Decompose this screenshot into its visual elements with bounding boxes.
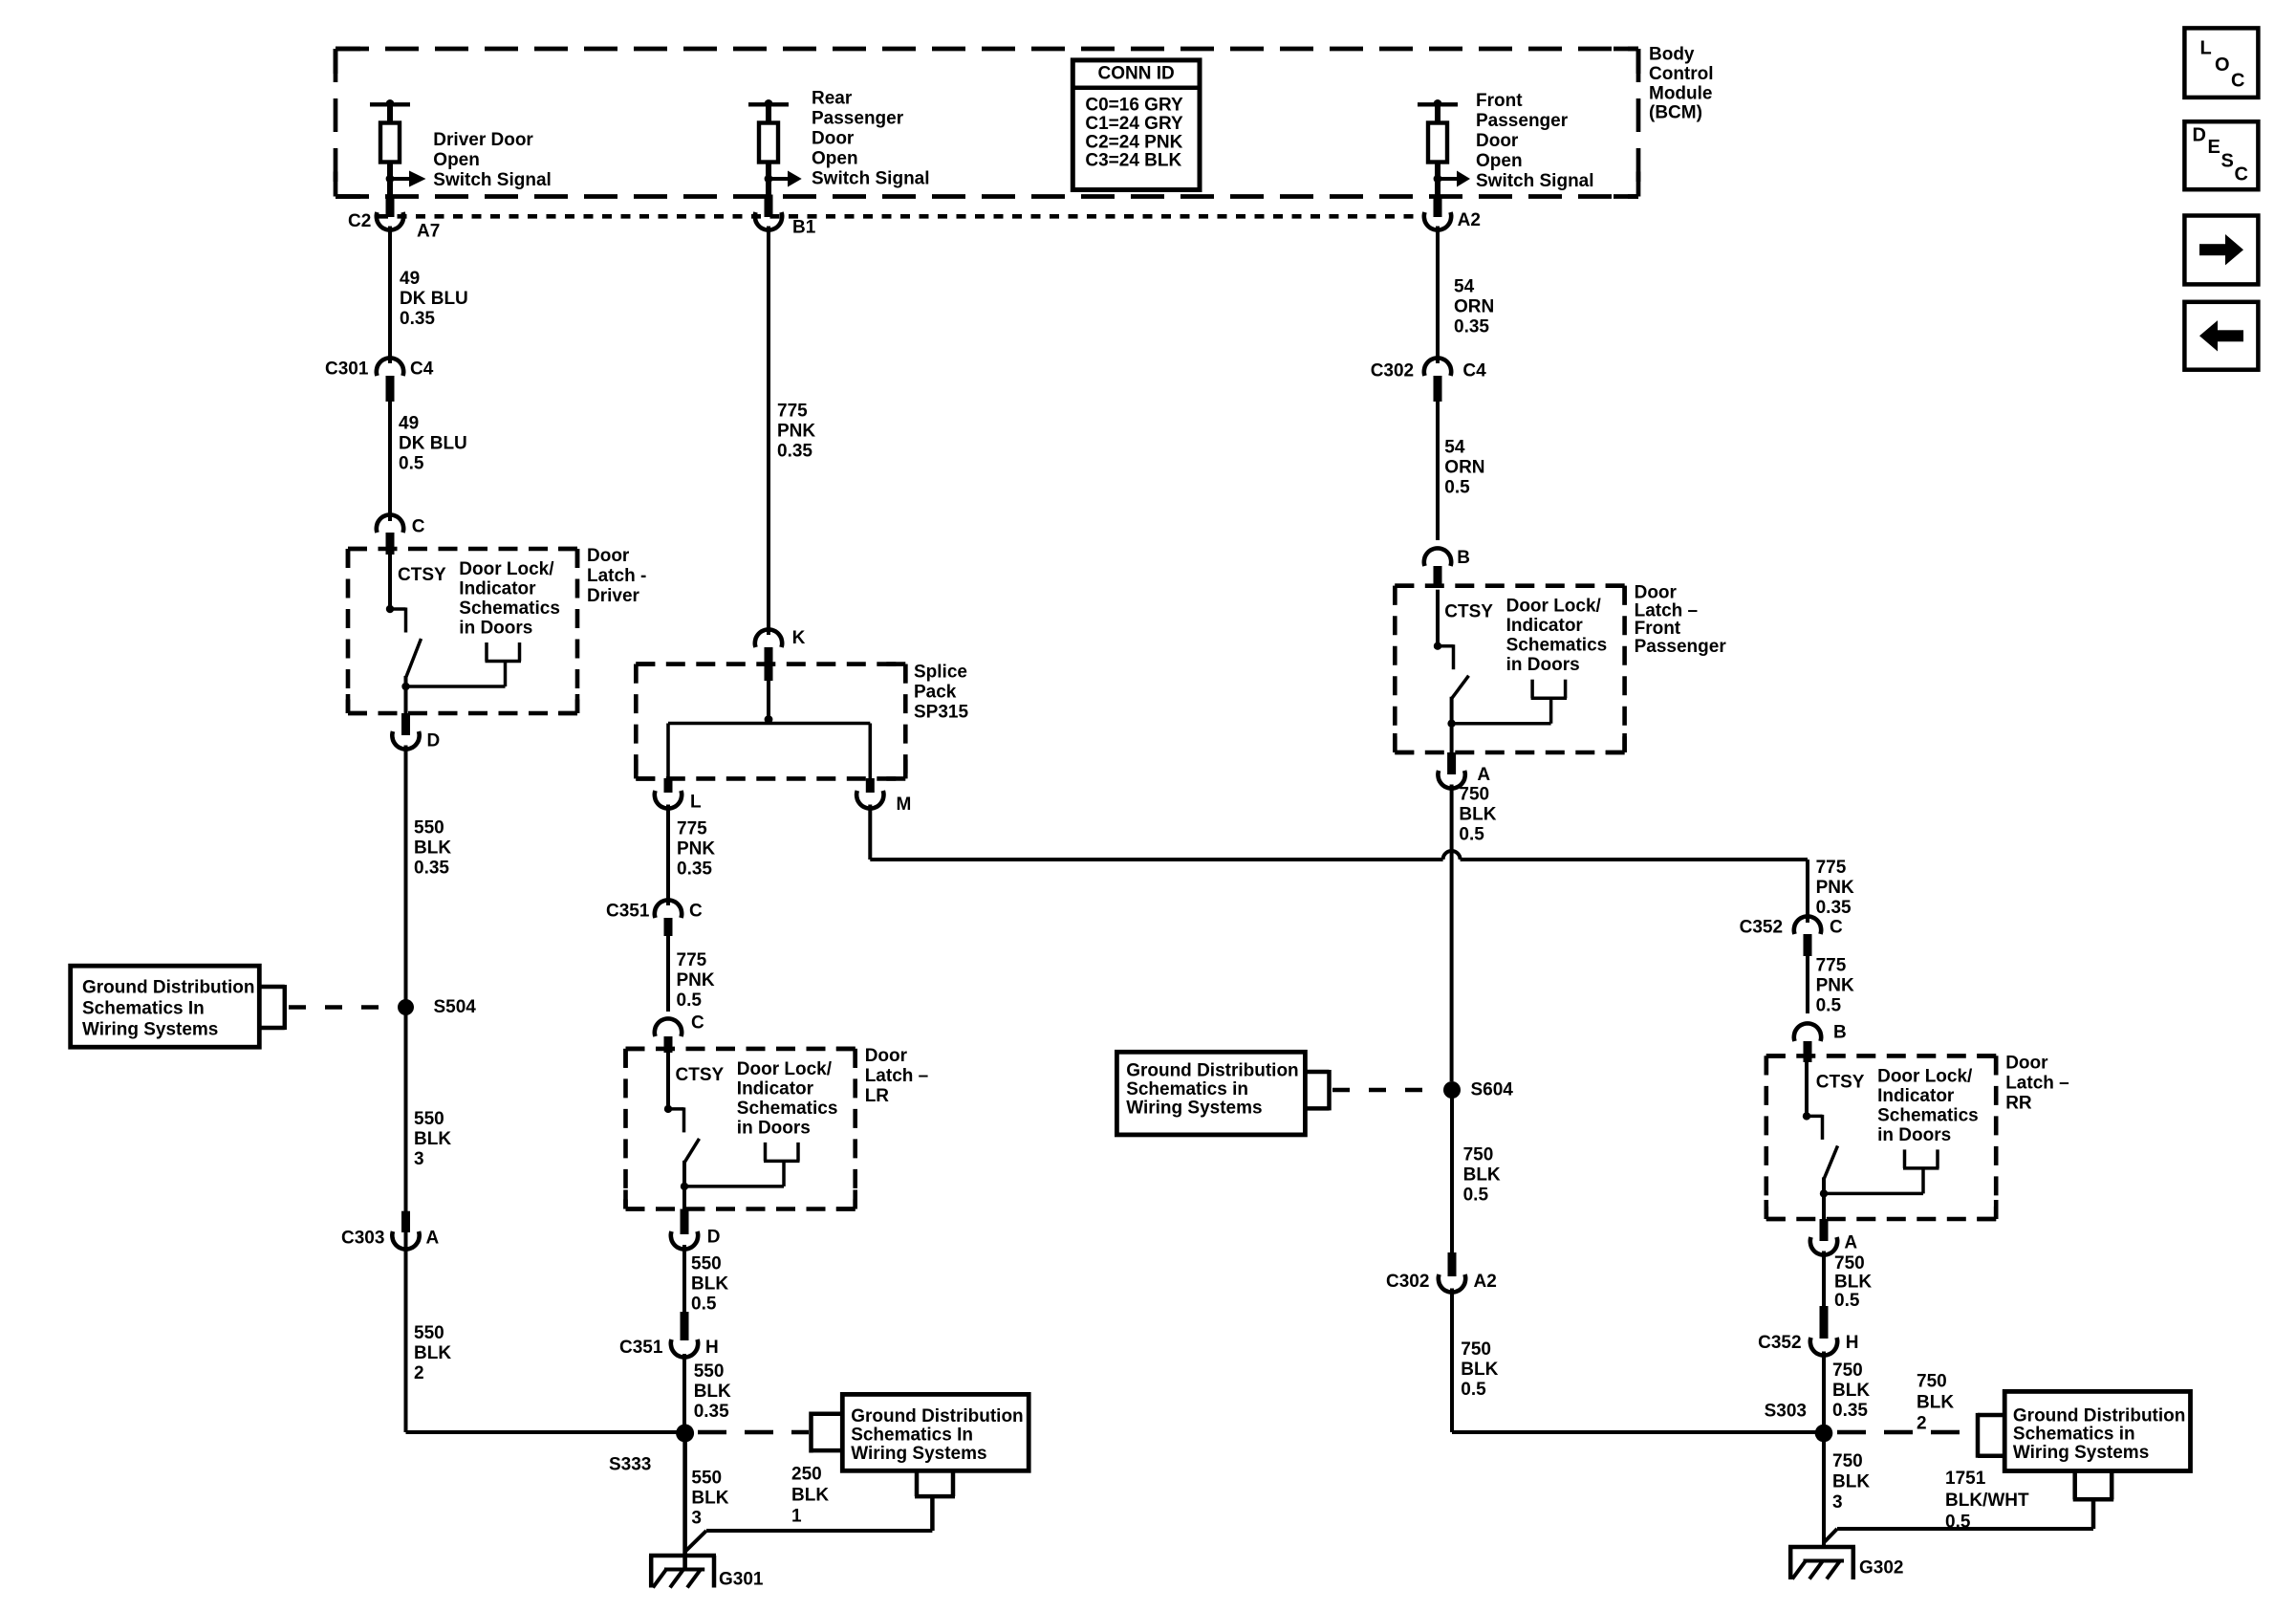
svg-text:S604: S604 [1471,1080,1514,1100]
svg-text:in Doors: in Doors [1506,655,1580,675]
svg-text:0.5: 0.5 [1461,1380,1486,1400]
svg-text:PNK: PNK [677,970,715,991]
svg-text:Latch –: Latch – [2005,1073,2069,1093]
svg-text:250: 250 [791,1465,822,1485]
svg-text:A: A [1844,1233,1857,1253]
svg-text:Schematics: Schematics [1506,636,1608,656]
svg-text:0.35: 0.35 [694,1402,729,1422]
svg-text:A: A [1477,765,1490,785]
svg-text:C303: C303 [341,1229,384,1249]
svg-text:750: 750 [1834,1253,1865,1274]
svg-text:D: D [2193,125,2206,146]
svg-text:BLK: BLK [414,1343,451,1363]
svg-text:Control: Control [1649,64,1714,84]
svg-text:PNK: PNK [1816,975,1854,995]
svg-text:BLK: BLK [691,1274,728,1295]
svg-text:DK BLU: DK BLU [399,434,467,454]
svg-text:2: 2 [414,1363,424,1383]
svg-text:(BCM): (BCM) [1649,103,1702,123]
svg-text:BLK: BLK [1461,1360,1498,1380]
svg-text:C2: C2 [348,211,371,231]
svg-text:0.5: 0.5 [1463,1186,1489,1206]
svg-text:0.35: 0.35 [400,309,435,329]
svg-text:CTSY: CTSY [1444,602,1493,622]
svg-text:775: 775 [777,402,808,422]
svg-text:BLK: BLK [1463,1165,1501,1186]
svg-text:A7: A7 [417,221,440,241]
svg-text:BLK: BLK [414,1129,451,1149]
svg-text:K: K [792,628,806,648]
svg-text:Indicator: Indicator [1506,616,1584,636]
svg-text:750: 750 [1832,1451,1863,1471]
svg-text:3: 3 [691,1509,702,1529]
svg-text:in Doors: in Doors [737,1118,811,1138]
svg-text:BLK: BLK [791,1486,829,1506]
svg-text:Open: Open [433,150,480,170]
svg-text:750: 750 [1832,1361,1863,1381]
svg-text:H: H [1846,1333,1859,1353]
svg-text:in Doors: in Doors [1877,1125,1951,1145]
svg-text:H: H [705,1338,719,1358]
svg-text:Door: Door [865,1046,908,1066]
svg-text:Wiring Systems: Wiring Systems [1126,1099,1262,1119]
svg-text:54: 54 [1454,277,1475,297]
svg-text:BLK: BLK [1834,1273,1872,1293]
svg-text:BLK: BLK [414,838,451,859]
svg-text:RR: RR [2005,1093,2032,1113]
svg-text:S504: S504 [434,997,477,1017]
svg-text:750: 750 [1463,1145,1494,1165]
svg-text:2: 2 [1917,1414,1927,1434]
svg-text:0.35: 0.35 [677,860,712,880]
svg-text:C: C [2231,71,2244,92]
svg-text:PNK: PNK [1816,878,1854,898]
svg-text:S303: S303 [1765,1401,1807,1421]
svg-text:B1: B1 [792,217,816,237]
svg-text:C351: C351 [619,1338,663,1358]
svg-text:Driver Door: Driver Door [433,130,533,150]
svg-text:54: 54 [1444,438,1465,458]
svg-text:Open: Open [1476,151,1523,171]
svg-text:A2: A2 [1458,210,1481,230]
svg-text:0.5: 0.5 [691,1295,717,1315]
svg-text:750: 750 [1917,1372,1947,1392]
svg-text:BLK: BLK [1459,805,1496,825]
svg-text:ORN: ORN [1454,297,1494,317]
svg-text:D: D [707,1228,721,1248]
svg-text:Indicator: Indicator [737,1078,814,1099]
svg-text:L: L [2200,37,2212,58]
svg-text:PNK: PNK [677,839,715,860]
svg-text:0.5: 0.5 [1459,825,1484,845]
svg-text:C: C [2235,164,2248,185]
svg-text:Latch –: Latch – [865,1066,929,1086]
svg-text:C352: C352 [1740,917,1783,937]
svg-text:C302: C302 [1371,361,1414,381]
svg-text:Switch Signal: Switch Signal [1476,171,1594,191]
svg-text:Passenger: Passenger [1635,637,1727,657]
svg-text:BLK: BLK [1917,1393,1954,1413]
svg-text:Door: Door [587,546,630,566]
svg-text:Door: Door [812,129,855,149]
svg-text:CTSY: CTSY [1816,1072,1865,1092]
svg-text:Ground Distribution: Ground Distribution [1126,1060,1298,1080]
svg-text:Schematics: Schematics [459,599,560,619]
svg-text:Schematics in: Schematics in [2013,1425,2135,1445]
svg-text:0.5: 0.5 [1816,995,1842,1015]
svg-text:Switch Signal: Switch Signal [433,170,552,190]
svg-text:C: C [412,517,425,537]
svg-text:D: D [427,731,441,751]
svg-text:Open: Open [812,149,858,169]
svg-text:Ground Distribution: Ground Distribution [82,978,254,998]
svg-text:Schematics in: Schematics in [1126,1079,1248,1099]
svg-text:0.5: 0.5 [1945,1513,1971,1533]
svg-text:G302: G302 [1859,1558,1903,1578]
svg-text:in Doors: in Doors [459,619,532,639]
svg-text:Wiring Systems: Wiring Systems [851,1444,986,1464]
svg-text:1751: 1751 [1945,1469,1986,1489]
svg-text:Door: Door [2005,1053,2048,1073]
svg-text:550: 550 [691,1254,722,1274]
svg-text:775: 775 [677,819,707,839]
svg-text:0.35: 0.35 [1816,898,1852,918]
svg-text:Splice: Splice [914,663,967,683]
svg-text:Schematics: Schematics [1877,1105,1979,1125]
svg-text:C4: C4 [1462,361,1486,381]
svg-text:775: 775 [1816,858,1847,878]
svg-text:CTSY: CTSY [398,565,446,585]
svg-text:S: S [2221,150,2234,171]
svg-text:550: 550 [694,1361,725,1382]
svg-text:G301: G301 [719,1570,764,1590]
svg-text:ORN: ORN [1444,458,1484,478]
svg-text:PNK: PNK [777,422,815,442]
svg-text:3: 3 [414,1149,424,1169]
svg-text:750: 750 [1461,1339,1491,1360]
svg-text:BLK: BLK [1832,1472,1870,1492]
svg-text:L: L [690,793,702,813]
svg-text:B: B [1457,548,1470,568]
svg-text:0.5: 0.5 [1444,478,1470,498]
svg-text:A2: A2 [1474,1272,1497,1292]
svg-text:C1=24 GRY: C1=24 GRY [1085,114,1183,134]
svg-text:Passenger: Passenger [1476,111,1569,131]
svg-text:550: 550 [691,1469,722,1489]
svg-text:0.35: 0.35 [1832,1401,1868,1421]
svg-text:CTSY: CTSY [676,1065,725,1085]
svg-text:0.5: 0.5 [1834,1291,1860,1311]
svg-text:Pack: Pack [914,683,957,703]
svg-text:550: 550 [414,1323,444,1343]
svg-text:M: M [897,795,912,815]
svg-text:3: 3 [1832,1492,1843,1513]
svg-text:BLK: BLK [694,1382,731,1402]
svg-text:C0=16 GRY: C0=16 GRY [1085,96,1183,116]
svg-text:0.5: 0.5 [677,991,703,1011]
svg-text:Rear: Rear [812,89,853,109]
svg-text:Door Lock/: Door Lock/ [1877,1066,1973,1086]
svg-text:LR: LR [865,1086,890,1106]
svg-text:0.35: 0.35 [414,859,449,879]
svg-text:Door Lock/: Door Lock/ [737,1059,833,1079]
svg-text:A: A [426,1229,440,1249]
svg-text:BLK/WHT: BLK/WHT [1945,1491,2029,1511]
svg-text:Body: Body [1649,45,1695,65]
svg-text:Driver: Driver [587,586,640,606]
svg-text:Latch -: Latch - [587,566,646,586]
svg-text:C: C [691,1013,704,1034]
svg-text:Door: Door [1476,131,1519,151]
svg-text:1: 1 [791,1507,802,1527]
svg-text:Module: Module [1649,83,1713,103]
svg-text:550: 550 [414,818,444,838]
svg-text:775: 775 [1816,955,1847,975]
svg-text:C: C [1830,917,1843,937]
svg-text:C: C [689,902,703,922]
svg-text:C3=24 BLK: C3=24 BLK [1085,151,1181,171]
svg-text:550: 550 [414,1109,444,1129]
svg-text:Ground Distribution: Ground Distribution [2013,1405,2185,1426]
svg-text:S333: S333 [609,1455,651,1475]
svg-text:C4: C4 [410,359,434,380]
svg-text:49: 49 [400,269,420,289]
svg-text:C2=24 PNK: C2=24 PNK [1085,132,1182,152]
svg-text:BLK: BLK [691,1489,728,1509]
svg-text:Door Lock/: Door Lock/ [459,559,554,579]
svg-text:E: E [2208,137,2220,158]
svg-text:SP315: SP315 [914,703,968,723]
svg-text:B: B [1833,1023,1847,1043]
svg-text:Wiring Systems: Wiring Systems [2013,1443,2149,1463]
svg-text:O: O [2215,54,2230,76]
svg-text:750: 750 [1459,785,1489,805]
svg-text:C301: C301 [325,359,369,380]
svg-text:775: 775 [677,950,707,970]
svg-text:Schematics In: Schematics In [851,1425,973,1445]
svg-text:BLK: BLK [1832,1381,1870,1401]
svg-text:CONN ID: CONN ID [1097,64,1174,84]
svg-text:Switch Signal: Switch Signal [812,169,930,189]
svg-text:C352: C352 [1758,1333,1801,1353]
svg-text:Indicator: Indicator [459,579,536,599]
svg-text:49: 49 [399,414,419,434]
svg-text:Front: Front [1476,91,1523,111]
svg-text:Wiring Systems: Wiring Systems [82,1020,218,1040]
svg-text:DK BLU: DK BLU [400,289,468,309]
svg-text:Ground Distribution: Ground Distribution [851,1406,1023,1426]
svg-text:0.5: 0.5 [399,454,424,474]
svg-text:Schematics: Schematics [737,1099,838,1119]
svg-text:C302: C302 [1386,1272,1429,1292]
svg-text:Indicator: Indicator [1877,1086,1955,1106]
svg-text:C351: C351 [606,902,650,922]
svg-text:Schematics In: Schematics In [82,999,205,1019]
svg-text:Door Lock/: Door Lock/ [1506,597,1602,617]
svg-text:Passenger: Passenger [812,109,904,129]
svg-text:0.35: 0.35 [1454,317,1489,337]
svg-text:0.35: 0.35 [777,442,812,462]
